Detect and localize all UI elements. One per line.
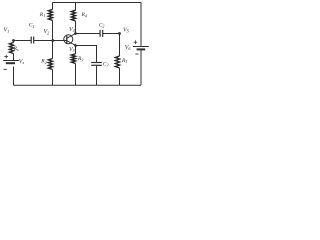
svg-text:R5: R5 (121, 58, 127, 64)
wire junction V2 down to R2 (52, 41, 54, 59)
resistor R2 lower bias zigzag (48, 59, 52, 70)
transistor Q1 emitter lead (67, 41, 76, 46)
svg-text:V1: V1 (4, 28, 10, 34)
wire top supply rail (53, 2, 142, 4)
wire base junction to transistor base (53, 40, 67, 42)
wire bottom ground rail (14, 84, 142, 86)
transistor Q1 collector lead (67, 34, 76, 39)
svg-text:V2: V2 (44, 29, 50, 35)
battery V6 plates (133, 47, 149, 50)
svg-text:R3: R3 (77, 56, 83, 62)
resistor R5 load zigzag (115, 56, 119, 68)
wire R3 bottom to ground rail (75, 64, 77, 86)
wire R4 drop from rail (75, 3, 77, 11)
wire right battery column to ground (140, 50, 142, 85)
node V4 collector dot (74, 32, 77, 35)
node V5 output dot (118, 32, 121, 35)
battery V6 minus sign (135, 53, 138, 55)
wire emitter node V3 right and down to C3 (76, 46, 97, 63)
svg-text:C2: C2 (99, 22, 105, 28)
svg-text:V6: V6 (125, 45, 132, 51)
wire collector node V4 to C2 (76, 33, 100, 35)
svg-text:C3: C3 (103, 61, 109, 67)
wire left battery column to ground (13, 67, 15, 86)
node V3 emitter dot (74, 44, 76, 46)
wire V1 node down to Rs (13, 41, 15, 43)
wire V5 down to R5 (119, 34, 121, 57)
wire C3 bottom to ground rail (96, 66, 98, 86)
resistor R1 top-left bias zigzag (48, 9, 52, 20)
capacitor C2 plates (100, 30, 103, 37)
battery Vs plus sign (4, 55, 8, 59)
wire R1 bottom to junction V2 (52, 20, 54, 40)
svg-text:R2: R2 (40, 59, 46, 65)
transistor Q1 circle (64, 35, 73, 44)
wire R2 bottom to ground rail (52, 70, 54, 86)
wire C1 to base junction V2 (34, 40, 53, 42)
svg-text:R1: R1 (39, 12, 45, 18)
resistor R3 emitter zigzag (71, 54, 75, 64)
battery Vs minus sign (4, 68, 7, 70)
wire top rail left drop to R1 (52, 3, 54, 10)
transistor Q1 base bar (66, 36, 68, 43)
resistor R4 collector zigzag (71, 10, 75, 21)
wire R5 bottom to ground rail (119, 68, 121, 85)
wire emitter node V3 down to R3 (75, 46, 77, 54)
svg-text:C1: C1 (29, 23, 35, 29)
svg-text:V4: V4 (69, 27, 75, 33)
svg-text:V5: V5 (123, 27, 129, 33)
battery V6 plus sign (134, 40, 138, 44)
wire top rail right drop to battery (140, 3, 142, 46)
node V2 junction dot (51, 39, 54, 42)
wire input node V1 to C1 (14, 40, 31, 42)
wire C2 to output node V5 (103, 33, 120, 35)
wire R4 bottom to collector node V4 (75, 21, 77, 34)
capacitor C1 plates (31, 37, 34, 44)
transistor Q1 emitter arrow (74, 44, 78, 47)
node V1 junction dot (12, 39, 15, 42)
svg-text:Rs: Rs (13, 46, 19, 52)
svg-text:V3: V3 (69, 47, 75, 53)
wire Rs bottom to battery Vs (13, 54, 15, 61)
svg-text:Vs: Vs (19, 59, 25, 65)
capacitor C3 plates (91, 63, 102, 66)
resistor Rs source zigzag (9, 43, 13, 54)
svg-text:R4: R4 (81, 12, 87, 18)
battery Vs plates (3, 61, 19, 64)
